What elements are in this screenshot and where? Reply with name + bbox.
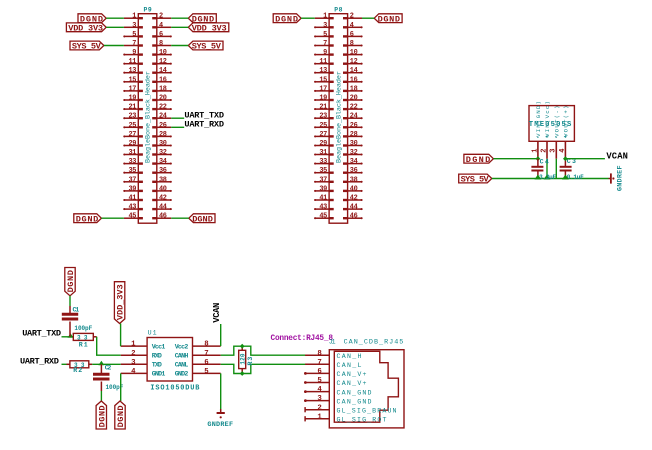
label C4 — [540, 158, 549, 165]
svg-text:9: 9 — [323, 49, 327, 57]
svg-text:15: 15 — [319, 76, 327, 84]
wire VDD_3V3 to P9 pin3 — [106, 26, 124, 28]
svg-text:DGND: DGND — [66, 270, 76, 292]
svg-text:19: 19 — [319, 95, 327, 103]
value 33 (R1) — [77, 334, 88, 341]
svg-text:41: 41 — [319, 195, 327, 203]
svg-text:CAN_H: CAN_H — [337, 353, 362, 360]
svg-text:8: 8 — [317, 350, 322, 358]
svg-text:1: 1 — [531, 149, 539, 153]
svg-text:CAN_CDB_RJ45: CAN_CDB_RJ45 — [344, 338, 404, 346]
svg-text:CAN_GND: CAN_GND — [337, 398, 372, 405]
svg-text:3: 3 — [317, 395, 322, 403]
svg-text:11: 11 — [319, 58, 327, 66]
svg-text:ISO1050DUB: ISO1050DUB — [150, 384, 199, 392]
svg-text:22: 22 — [350, 104, 358, 112]
svg-text:17: 17 — [129, 85, 137, 93]
svg-text:11: 11 — [129, 58, 137, 66]
capacitor C3 — [560, 159, 572, 178]
wire DGND to C1 — [69, 296, 71, 306]
junction C4 bottom — [534, 175, 541, 180]
svg-text:TXD: TXD — [152, 362, 162, 369]
svg-text:4: 4 — [317, 386, 322, 394]
svg-text:+: + — [564, 133, 568, 140]
value 3.3uF (C4) — [539, 174, 556, 181]
wire VCAN row — [565, 158, 605, 160]
supply flag DGND (P9 pin 1) — [78, 14, 106, 25]
svg-text:8: 8 — [159, 40, 163, 48]
svg-text:18: 18 — [159, 85, 167, 93]
wire R2 to U1 pin3 — [92, 363, 121, 365]
svg-text:GNDREF: GNDREF — [617, 165, 625, 191]
value 100pF (C2) — [106, 384, 124, 391]
ground GNDREF (top right) — [609, 165, 625, 191]
net label UART_TXD (bottom) — [22, 329, 61, 339]
wire DGND to P9 pin45 — [101, 217, 124, 219]
svg-text:6: 6 — [317, 368, 322, 376]
svg-text:31: 31 — [129, 149, 137, 157]
svg-text:25: 25 — [319, 122, 327, 130]
svg-text:21: 21 — [319, 104, 327, 112]
svg-text:32: 32 — [159, 149, 167, 157]
svg-text:34: 34 — [159, 158, 167, 166]
svg-text:120: 120 — [239, 353, 246, 364]
svg-text:31: 31 — [319, 149, 327, 157]
svg-text:UART_RXD: UART_RXD — [184, 119, 224, 129]
junction R3 top — [240, 344, 245, 349]
svg-text:3: 3 — [550, 149, 558, 153]
svg-text:DGND: DGND — [192, 214, 213, 224]
svg-text:P8: P8 — [334, 6, 342, 13]
svg-text:UART_RXD: UART_RXD — [20, 356, 59, 366]
svg-text:14: 14 — [159, 67, 167, 75]
svg-text:27: 27 — [319, 131, 327, 139]
svg-text:VCAN: VCAN — [606, 151, 628, 161]
svg-text:CAN_V+: CAN_V+ — [337, 380, 367, 387]
junction C3 top / VCAN — [563, 156, 568, 161]
svg-text:C4: C4 — [540, 158, 549, 165]
svg-text:SYS_5V: SYS_5V — [192, 42, 222, 52]
label R2 — [73, 367, 82, 374]
svg-text:37: 37 — [129, 176, 137, 184]
svg-text:VOUT(-): VOUT(-) — [554, 106, 561, 138]
svg-text:35: 35 — [129, 167, 137, 175]
svg-text:3: 3 — [132, 22, 136, 30]
label C3 — [567, 158, 576, 165]
svg-text:16: 16 — [350, 76, 358, 84]
svg-text:41: 41 — [129, 195, 137, 203]
svg-text:VDD_3V3: VDD_3V3 — [116, 284, 126, 320]
wire UART_TXD — [62, 336, 74, 338]
svg-text:9: 9 — [132, 49, 136, 57]
capacitor C1 — [62, 306, 78, 337]
svg-text:Connect:RJ45_8: Connect:RJ45_8 — [271, 335, 334, 343]
wire C2 to DGND — [100, 391, 102, 401]
svg-text:GL_SIG_ROT: GL_SIG_ROT — [337, 417, 387, 424]
supply flag DGND (below C2) — [96, 401, 107, 429]
value 0.1uF (C3) — [567, 174, 584, 181]
svg-text:7: 7 — [204, 350, 208, 358]
supply flag SYS_5V (P9 pin 7) — [70, 41, 104, 52]
svg-text:27: 27 — [129, 131, 137, 139]
value 33 (R2) — [74, 362, 85, 369]
svg-text:2: 2 — [131, 350, 135, 358]
ground GNDREF (bottom) — [207, 409, 233, 429]
svg-text:22: 22 — [159, 104, 167, 112]
svg-text:18: 18 — [350, 85, 358, 93]
svg-text:43: 43 — [129, 204, 137, 212]
svg-text:2: 2 — [540, 149, 548, 153]
svg-text:CAN_L: CAN_L — [337, 362, 362, 369]
svg-text:43: 43 — [319, 204, 327, 212]
connector J1 CAN_CDB_RJ45 — [304, 338, 404, 428]
attribute label Connect:RJ45_8 — [271, 335, 334, 343]
junction C4 top — [536, 156, 541, 161]
svg-text:DGND: DGND — [275, 14, 298, 24]
wire VDD_3V3 to P9 pin4 — [171, 26, 188, 28]
svg-text:-: - — [555, 133, 558, 140]
svg-text:DGND: DGND — [466, 155, 491, 165]
junction pin2 bottom — [544, 175, 551, 180]
label R3 — [247, 357, 254, 366]
svg-text:VIN(Vcc): VIN(Vcc) — [544, 101, 551, 137]
svg-text:46: 46 — [159, 213, 167, 221]
svg-text:U1: U1 — [148, 330, 157, 337]
svg-text:CANL: CANL — [175, 362, 189, 369]
capacitor C2 — [93, 364, 110, 391]
connector P8 — [314, 6, 363, 223]
svg-text:2: 2 — [350, 13, 354, 21]
svg-text:3: 3 — [131, 359, 136, 367]
svg-text:13: 13 — [319, 67, 327, 75]
svg-text:17: 17 — [319, 85, 327, 93]
svg-text:+: + — [545, 133, 549, 140]
svg-text:46: 46 — [350, 213, 358, 221]
svg-text:CANH: CANH — [175, 352, 189, 359]
svg-text:1: 1 — [131, 341, 136, 349]
svg-text:VDD_3V3: VDD_3V3 — [192, 24, 227, 34]
svg-text:32: 32 — [350, 149, 358, 157]
svg-text:44: 44 — [159, 204, 167, 212]
supply flag DGND (P9 pin 46) — [189, 214, 215, 225]
svg-text:37: 37 — [319, 176, 327, 184]
svg-text:SYS_5V: SYS_5V — [461, 175, 490, 185]
svg-text:4: 4 — [159, 22, 163, 30]
svg-text:R2: R2 — [73, 367, 82, 374]
label R1 — [79, 342, 88, 349]
svg-text:GL_SIG_BRAUN: GL_SIG_BRAUN — [337, 407, 397, 414]
wire U1 pin4 to DGND — [120, 373, 122, 401]
svg-text:CAN_V+: CAN_V+ — [337, 371, 367, 378]
svg-text:7: 7 — [317, 359, 321, 367]
svg-text:15: 15 — [129, 76, 137, 84]
svg-text:36: 36 — [350, 167, 358, 175]
wire VCAN to U1 pin8 — [220, 324, 222, 346]
svg-text:26: 26 — [159, 122, 167, 130]
wire UART_RXD — [62, 363, 67, 365]
wire CANL — [221, 364, 306, 373]
supply flag DGND (P9 pin 45) — [74, 214, 102, 225]
supply flag DGND (U1 GND1) — [115, 401, 126, 429]
junction C1/R1 — [68, 333, 74, 338]
resistor R1 — [73, 333, 96, 340]
net label UART_RXD (bottom) — [20, 356, 59, 366]
supply flag DGND (DC-DC input) — [464, 154, 494, 165]
svg-text:VDD_3V3: VDD_3V3 — [68, 24, 103, 34]
svg-text:20: 20 — [159, 95, 167, 103]
svg-text:21: 21 — [129, 104, 137, 112]
net label VCAN (vertical) — [212, 303, 222, 323]
supply flag VDD_3V3 (U1 Vcc1) — [114, 282, 125, 324]
wire CANH — [221, 346, 306, 355]
svg-text:35: 35 — [319, 167, 327, 175]
svg-text:UART_TXD: UART_TXD — [22, 329, 61, 339]
svg-text:3: 3 — [323, 22, 327, 30]
svg-text:5: 5 — [323, 31, 327, 39]
junction C3 bottom — [562, 175, 569, 180]
svg-text:VCAN: VCAN — [212, 303, 222, 323]
svg-text:23: 23 — [129, 113, 137, 121]
svg-text:12: 12 — [350, 58, 358, 66]
svg-text:0.1uF: 0.1uF — [567, 174, 584, 181]
svg-text:26: 26 — [350, 122, 358, 130]
svg-text:1: 1 — [317, 413, 322, 421]
svg-text:CAN_GND: CAN_GND — [337, 389, 372, 396]
wire DGND to P9 pin2 — [171, 17, 188, 19]
svg-text:GNDREF: GNDREF — [207, 421, 233, 429]
supply flag DGND (above C1) — [65, 268, 76, 296]
svg-text:40: 40 — [159, 185, 167, 193]
value 120 (R3) — [239, 353, 246, 364]
svg-text:24: 24 — [159, 113, 167, 121]
svg-text:13: 13 — [129, 67, 137, 75]
capacitor C4 — [531, 159, 543, 178]
svg-text:23: 23 — [319, 113, 327, 121]
svg-text:BeagleBone_Black_Header: BeagleBone_Black_Header — [145, 71, 153, 163]
wire R1 to U1 pin2 — [97, 337, 121, 355]
svg-text:BeagleBone_Black_Header: BeagleBone_Black_Header — [335, 71, 343, 163]
wire DGND row — [493, 158, 538, 160]
svg-text:RXD: RXD — [152, 352, 162, 359]
svg-text:40: 40 — [350, 185, 358, 193]
svg-text:28: 28 — [350, 131, 358, 139]
wire DGND to P9 pin46 — [171, 217, 189, 219]
connector P9 — [123, 6, 172, 223]
svg-text:45: 45 — [129, 213, 137, 221]
svg-text:29: 29 — [319, 140, 327, 148]
svg-text:2: 2 — [159, 13, 163, 21]
svg-text:25: 25 — [129, 122, 137, 130]
supply flag DGND (P9 pin 2) — [188, 14, 216, 25]
svg-text:8: 8 — [350, 40, 354, 48]
svg-text:42: 42 — [159, 195, 167, 203]
svg-text:C2: C2 — [105, 365, 112, 372]
junction R3 bottom — [240, 371, 245, 376]
label C2 — [105, 365, 112, 372]
svg-text:20: 20 — [350, 95, 358, 103]
svg-text:7: 7 — [323, 40, 327, 48]
wire U1 pin5 to GNDREF — [220, 373, 222, 409]
svg-text:R3: R3 — [247, 357, 254, 366]
svg-text:5: 5 — [204, 368, 209, 376]
svg-text:1: 1 — [323, 13, 327, 21]
supply flag SYS_5V (DC-DC input) — [459, 174, 492, 185]
svg-text:VIN(GND): VIN(GND) — [535, 101, 542, 137]
svg-text:Vcc2: Vcc2 — [175, 343, 189, 350]
wire DGND to P8 pin1 — [301, 17, 315, 19]
svg-text:R1: R1 — [79, 342, 88, 349]
svg-text:38: 38 — [350, 176, 358, 184]
DC-DC converter PS1 TME0505S — [529, 101, 575, 159]
net label UART_RXD (P9 pin 26) — [184, 119, 224, 129]
supply flag DGND (P8 pin 1) — [273, 14, 301, 25]
wire SYS_5V / GNDREF bottom row — [492, 178, 609, 180]
svg-text:29: 29 — [129, 140, 137, 148]
svg-text:4: 4 — [559, 149, 567, 153]
svg-text:14: 14 — [350, 67, 358, 75]
svg-text:19: 19 — [129, 95, 137, 103]
value 100pF (C1) — [74, 325, 92, 332]
svg-text:33: 33 — [129, 158, 137, 166]
svg-text:100pF: 100pF — [74, 325, 92, 332]
svg-text:30: 30 — [159, 140, 167, 148]
svg-text:39: 39 — [129, 185, 137, 193]
svg-text:42: 42 — [350, 195, 358, 203]
svg-text:6: 6 — [204, 359, 209, 367]
supply flag VDD_3V3 (P9 pin 3) — [66, 23, 106, 34]
svg-text:5: 5 — [132, 31, 136, 39]
svg-text:38: 38 — [159, 176, 167, 184]
svg-text:P9: P9 — [144, 6, 152, 13]
svg-text:3.3uF: 3.3uF — [539, 174, 556, 181]
svg-text:GND1: GND1 — [152, 371, 166, 378]
svg-text:1: 1 — [132, 13, 136, 21]
svg-text:36: 36 — [159, 167, 167, 175]
resistor R3 (CAN termination) — [239, 346, 246, 373]
svg-text:45: 45 — [319, 213, 327, 221]
svg-text:4: 4 — [350, 22, 354, 30]
wire DGND to P9 pin1 — [106, 17, 124, 19]
svg-text:44: 44 — [350, 204, 358, 212]
wire pin3 down — [555, 159, 557, 179]
svg-text:28: 28 — [159, 131, 167, 139]
svg-text:DGND: DGND — [378, 14, 400, 24]
svg-text:34: 34 — [350, 158, 358, 166]
svg-text:24: 24 — [350, 113, 358, 121]
svg-text:DGND: DGND — [97, 405, 107, 427]
supply flag DGND (P8 pin 2) — [374, 14, 402, 25]
svg-text:4: 4 — [131, 368, 136, 376]
junction C2 — [98, 361, 104, 366]
svg-text:J1: J1 — [329, 338, 336, 346]
svg-text:VOUT(+): VOUT(+) — [563, 106, 570, 138]
svg-text:6: 6 — [350, 31, 354, 39]
resistor R2 — [67, 361, 93, 368]
svg-text:DGND: DGND — [116, 405, 126, 427]
supply flag VDD_3V3 (P9 pin 4) — [188, 23, 229, 34]
wire UART_RXD from P9 pin26 — [171, 126, 184, 128]
svg-text:12: 12 — [159, 58, 167, 66]
net label VCAN (top right) — [606, 151, 628, 161]
wire VDD_3V3 to U1 pin1 — [120, 324, 122, 347]
supply flag SYS_5V (P9 pin 8) — [188, 41, 223, 52]
svg-text:10: 10 — [159, 49, 167, 57]
svg-text:6: 6 — [159, 31, 163, 39]
wire UART_TXD from P9 pin24 — [171, 117, 184, 119]
svg-text:7: 7 — [132, 40, 136, 48]
svg-text:Vcc1: Vcc1 — [152, 343, 166, 350]
svg-text:16: 16 — [159, 76, 167, 84]
svg-text:30: 30 — [350, 140, 358, 148]
svg-text:C1: C1 — [73, 307, 80, 314]
svg-text:-: - — [536, 133, 539, 140]
wire SYS_5V to P9 pin8 — [171, 45, 188, 47]
wire SYS_5V to P9 pin7 — [104, 45, 124, 47]
svg-text:5: 5 — [317, 377, 322, 385]
wire pin2 down — [546, 159, 548, 179]
svg-text:33: 33 — [319, 158, 327, 166]
svg-text:2: 2 — [317, 404, 321, 412]
svg-text:DGND: DGND — [76, 214, 99, 224]
wire DGND to P8 pin2 — [362, 17, 374, 19]
net label UART_TXD (P9 pin 24) — [184, 110, 224, 120]
svg-text:8: 8 — [204, 341, 209, 349]
svg-text:39: 39 — [319, 185, 327, 193]
op-amp / transceiver U1 ISO1050DUB — [121, 330, 221, 393]
label C1 — [73, 307, 80, 314]
svg-text:GND2: GND2 — [175, 371, 189, 378]
svg-text:10: 10 — [350, 49, 358, 57]
svg-text:SYS_5V: SYS_5V — [72, 42, 102, 52]
